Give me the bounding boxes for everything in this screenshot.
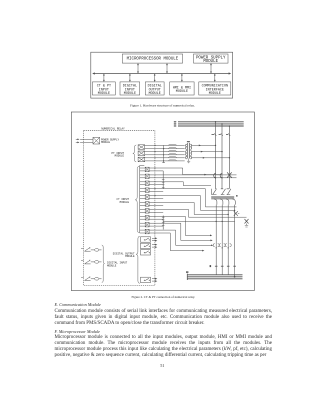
numerical relay dashed enclosure xyxy=(84,127,155,285)
svg-text:MODULE: MODULE xyxy=(125,255,135,258)
lv lead hook n xyxy=(232,199,235,205)
svg-text:MODULE: MODULE xyxy=(115,155,125,158)
isolator tick phase R xyxy=(212,133,217,136)
lv lead hook b xyxy=(220,199,223,205)
digital output module label and brace xyxy=(113,236,140,283)
test link bumps on pt wires phase C xyxy=(168,157,176,161)
pt input module label and brace xyxy=(112,145,137,162)
ct star point collector upper xyxy=(162,171,165,189)
ct input row 2 xyxy=(140,174,237,179)
lv lead hook c xyxy=(226,199,229,205)
bus link arrow microprocessor left xyxy=(137,63,139,73)
section F paragraph xyxy=(55,335,273,359)
pt secondary wire pair phase C xyxy=(145,157,185,161)
field contact switch 3 xyxy=(81,276,95,280)
figure 1 enclosure frame xyxy=(91,52,233,98)
lv vertical a xyxy=(215,205,217,275)
winding band tag xyxy=(236,195,238,196)
circuit breaker hook phase R xyxy=(214,173,216,178)
circuit breaker X phase B xyxy=(227,172,232,177)
bus link arrow communication xyxy=(214,74,216,82)
ct input row 10 xyxy=(140,229,214,251)
svg-text:MODULE: MODULE xyxy=(209,92,221,96)
power supply module box with cross xyxy=(93,137,120,144)
metering ct on lv c xyxy=(225,244,231,249)
test link bumps on pt wires phase B xyxy=(168,151,176,155)
svg-text:MODULE: MODULE xyxy=(176,90,188,94)
ct-pt input module block xyxy=(92,82,115,96)
ct input module label and brace xyxy=(117,166,140,232)
lv feeder tick marks xyxy=(210,265,236,267)
lv vertical neutral xyxy=(234,205,236,278)
wire terminal to PSU lower xyxy=(80,141,93,143)
svg-text:NUMERICAL RELAY: NUMERICAL RELAY xyxy=(101,127,125,130)
phase drop R from bus xyxy=(215,121,217,189)
bus link arrow ct-pt input xyxy=(103,74,105,82)
bus link arrow hmi-mmi xyxy=(181,74,183,82)
pt input transformer box phase C xyxy=(138,157,145,162)
digital output module block xyxy=(145,82,164,96)
field contact switch 2 xyxy=(81,260,95,264)
bus link arrow digital output xyxy=(154,74,156,82)
pt input transformer box phase A xyxy=(138,145,145,150)
opto input 3 xyxy=(95,278,102,281)
metering ct on lv b xyxy=(219,244,225,249)
section E heading xyxy=(55,302,273,307)
lv bus left terminator xyxy=(186,271,188,280)
transformer winding band xyxy=(211,196,234,199)
page number xyxy=(160,363,164,368)
section E paragraph xyxy=(55,309,273,326)
field contact switch 1 xyxy=(81,247,95,251)
phase drop B from bus xyxy=(229,125,231,189)
svg-text:MODULE: MODULE xyxy=(107,264,117,267)
svg-text:MODULE: MODULE xyxy=(149,92,161,96)
bus link arrow power supply xyxy=(210,63,212,73)
section F heading xyxy=(55,329,273,334)
svg-text:Figure 1. Hardware structure o: Figure 1. Hardware structure of numerica… xyxy=(130,104,195,108)
isolator tick phase Y xyxy=(219,133,223,136)
power supply module block xyxy=(194,54,229,64)
metering ct on lv a xyxy=(213,244,219,249)
svg-text:Figure 2. CT & PT connection o: Figure 2. CT & PT connection of numerica… xyxy=(132,295,196,299)
output relay contact box 3 xyxy=(141,250,151,255)
digital input module label and brace xyxy=(102,245,128,283)
svg-text:MODULE: MODULE xyxy=(98,92,110,96)
svg-text:MODULE: MODULE xyxy=(120,201,130,204)
lv vertical c xyxy=(227,205,229,275)
junction dot row1 phase Y xyxy=(221,177,222,178)
pt primary lead phase C to bus drop xyxy=(192,157,230,159)
digital input module block xyxy=(120,82,140,96)
circuit breaker hook phase Y xyxy=(220,173,222,178)
svg-text:MICROPROCESSOR MODULE: MICROPROCESSOR MODULE xyxy=(127,57,179,61)
ct input row 4 with staircase xyxy=(140,188,237,207)
figure 2 outer frame xyxy=(71,112,254,291)
output relay contact box 4 xyxy=(141,277,158,282)
lv lead hook a xyxy=(214,199,217,205)
auxiliary supply terminal lower xyxy=(76,142,93,144)
current transformer symbol phase R xyxy=(212,189,217,195)
ct input row 6 with staircase xyxy=(140,202,229,216)
isolator tick phase B xyxy=(226,133,230,136)
spare ct stub with breaker xyxy=(234,211,240,216)
three phase bus top xyxy=(178,122,244,126)
ct input row 3 with staircase to lv side xyxy=(140,181,211,186)
opto input 2 xyxy=(95,261,102,264)
bus link arrow microprocessor right xyxy=(166,63,168,73)
lv vertical b xyxy=(221,205,223,275)
pt primary lead phase A to bus drop xyxy=(192,145,217,147)
earthing switch branch xyxy=(245,219,249,227)
output relay contact box 2 xyxy=(141,243,158,248)
PT ground xyxy=(187,159,190,163)
pt primary lead phase B to bus drop xyxy=(192,151,223,153)
svg-text:MODULE: MODULE xyxy=(101,141,111,144)
ct secondary left collector xyxy=(140,165,145,233)
phase drop Y from bus xyxy=(221,123,223,189)
potential transformer PT symbol xyxy=(186,141,192,159)
pt secondary wire pair phase A xyxy=(145,145,185,149)
test link bumps on pt wires phase A xyxy=(168,144,176,148)
ct input row 5 with staircase xyxy=(140,195,236,211)
auxiliary supply terminal upper xyxy=(76,138,93,140)
svg-text:MODULE: MODULE xyxy=(124,92,136,96)
ct input row 1 xyxy=(140,167,222,175)
ct input row 8 with staircase xyxy=(140,216,223,237)
wire terminal to PSU upper xyxy=(80,138,93,140)
microprocessor module block xyxy=(122,54,182,63)
opto input 1 xyxy=(95,249,102,252)
current transformer symbol phase Y xyxy=(221,189,226,195)
ct input row 9 xyxy=(140,222,213,241)
lv bus bottom xyxy=(188,275,243,279)
junction dot row1 phase R xyxy=(215,177,216,178)
output relay contact box 1 xyxy=(141,237,158,242)
ct star point collector right xyxy=(162,216,165,230)
bus left terminator marks xyxy=(174,121,177,127)
communication interface module block xyxy=(199,82,231,96)
ct input row 7 with staircase xyxy=(140,209,247,222)
pt secondary wire pair phase B xyxy=(145,151,185,155)
pt secondary star point collector xyxy=(162,145,165,162)
hmi-mmi module block xyxy=(170,82,194,95)
bus link arrow digital input xyxy=(129,74,131,82)
pt input transformer box phase B xyxy=(138,151,145,156)
system bus line with end arrows xyxy=(92,72,231,74)
current transformer symbol phase B xyxy=(227,189,231,195)
